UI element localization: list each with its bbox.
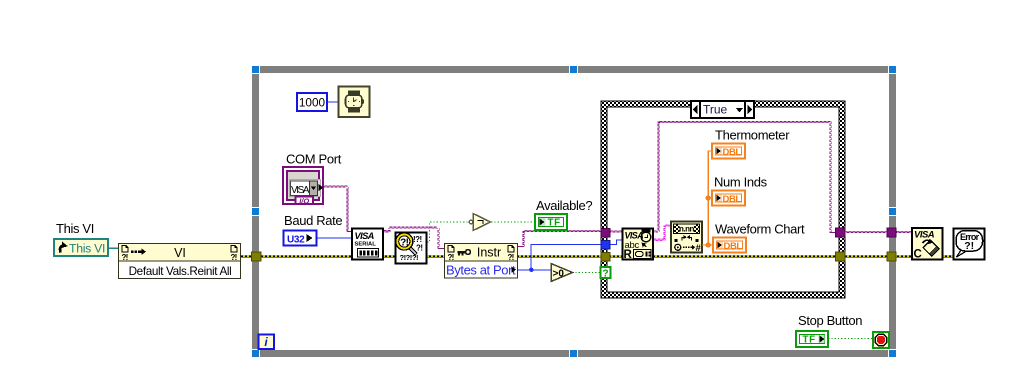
- wire: bytes-at-port integer branch: [517, 240, 623, 270]
- wire: baud rate U32 to VISA serial: [313, 237, 352, 239]
- wait (ms) function: [339, 87, 370, 118]
- svg-text:Instr: Instr: [477, 246, 501, 260]
- tunnel: error out of case (right): [836, 252, 846, 261]
- wire: VISA resource case tunnel to loop tunnel to VISA close: [843, 231, 914, 232]
- tunnel: VISA out of case (right): [836, 228, 846, 237]
- svg-text:?!: ?!: [448, 253, 454, 262]
- svg-text:DBL: DBL: [723, 194, 742, 205]
- wire: boolean clear-errors status to NOT gate: [427, 222, 469, 242]
- wire: VISA resource serial-out to property node: [382, 227, 445, 249]
- clear errors VI: [396, 233, 427, 264]
- svg-text:Waveform Chart: Waveform Chart: [715, 222, 805, 237]
- property node Instr : Bytes at Port: [445, 244, 518, 279]
- Available? boolean indicator: [535, 214, 567, 230]
- Waveform Chart DBL indicator: [713, 238, 746, 253]
- svg-text:#: #: [696, 243, 702, 254]
- wire: 1000 to wait ms: [327, 101, 339, 103]
- Thermometer DBL indicator: [712, 144, 745, 159]
- greater than 0 gate: [551, 264, 573, 282]
- svg-text:DBL: DBL: [724, 241, 743, 252]
- loop iteration terminal i: [259, 335, 275, 350]
- wire: VISA resource read-out around case top to right tunnel: [652, 121, 838, 232]
- svg-text:DBL: DBL: [723, 147, 742, 158]
- wire: read buffer string to scan-from-string: [652, 225, 671, 241]
- svg-text:Default Vals.Reinit All: Default Vals.Reinit All: [129, 265, 232, 278]
- while loop border: [252, 66, 896, 357]
- label 1000 constant: [297, 93, 327, 111]
- invoke node VI : Default Vals.Reinit All: [119, 244, 241, 279]
- svg-text:VISA: VISA: [291, 185, 310, 196]
- svg-text:?!: ?!: [400, 238, 409, 249]
- svg-text:?!: ?!: [416, 244, 423, 253]
- svg-text:C: C: [914, 249, 922, 261]
- svg-text:VISA: VISA: [355, 231, 375, 241]
- wire: boolean greater-than-zero to case selector: [572, 272, 601, 274]
- svg-text:SERIAL: SERIAL: [355, 242, 377, 248]
- svg-text:Bytes at Port: Bytes at Port: [446, 263, 516, 278]
- tunnel: VISA out of loop (right): [887, 228, 896, 237]
- svg-text:VISA: VISA: [625, 231, 644, 241]
- wire junction: orange at num inds: [706, 195, 711, 200]
- VISA configure serial port VI: [352, 229, 383, 260]
- svg-text:Num Inds: Num Inds: [714, 175, 768, 190]
- svg-text:Stop Button: Stop Button: [798, 313, 862, 328]
- tunnel: integer into case (left): [601, 241, 610, 250]
- NOT gate: [469, 214, 490, 231]
- svg-text:Baud Rate: Baud Rate: [284, 213, 342, 228]
- tunnel: VISA into case (left): [601, 229, 610, 238]
- simple error handler VI: [954, 229, 985, 260]
- svg-text:R: R: [624, 249, 633, 261]
- Num Inds DBL indicator: [712, 191, 745, 206]
- svg-text:VISA: VISA: [914, 230, 935, 241]
- U32 baud rate constant: [284, 231, 317, 246]
- wire junction: orange at waveform chart: [706, 242, 711, 247]
- svg-text:?!: ?!: [508, 253, 514, 262]
- tunnel: error out of loop (right): [887, 252, 896, 261]
- svg-text:U32: U32: [287, 235, 305, 246]
- svg-text:True: True: [703, 103, 728, 117]
- VISA read VI: [623, 229, 654, 262]
- wire: This VI refnum to invoke node: [107, 247, 119, 249]
- case structure border: [601, 101, 845, 298]
- svg-text:?!: ?!: [964, 240, 974, 252]
- svg-text:?!: ?!: [231, 253, 237, 262]
- svg-text:Available?: Available?: [536, 198, 592, 213]
- wire: boolean NOT output to Available? indicator: [491, 221, 536, 223]
- svg-text:Thermometer: Thermometer: [715, 128, 790, 143]
- svg-text:?: ?: [602, 269, 608, 280]
- Stop Button boolean control: [796, 331, 828, 347]
- svg-text:This VI: This VI: [69, 242, 105, 256]
- VISA close VI: [912, 228, 943, 261]
- svg-text:I/O: I/O: [299, 196, 309, 205]
- svg-text:>0: >0: [553, 269, 565, 280]
- wire: error cluster main line: [241, 255, 954, 258]
- svg-text:This VI: This VI: [56, 221, 94, 236]
- svg-text:TF: TF: [548, 218, 561, 229]
- scan from string (fract/exp string to number) VI: [671, 222, 702, 255]
- case selector label True: [691, 101, 754, 118]
- wire: VISA resource inside case to VISA read: [609, 231, 623, 232]
- svg-text:n.nn: n.nn: [679, 225, 694, 234]
- loop condition terminal (stop sign): [873, 332, 889, 348]
- svg-text:TF: TF: [803, 335, 816, 346]
- This VI refnum constant: [54, 239, 108, 256]
- wire: boolean stop button to loop condition terminal: [828, 338, 873, 340]
- tunnel: error into case (left): [601, 253, 610, 262]
- wire: VISA resource property node to case tunnel: [517, 230, 603, 246]
- svg-text:?!: ?!: [122, 253, 128, 262]
- wire: DBL orange branch: [702, 151, 714, 245]
- wire junction: bytes-at-port: [529, 268, 533, 272]
- COM Port VISA resource constant: [283, 167, 324, 205]
- while loop selection handles: [251, 65, 897, 358]
- case selector terminal ?: [601, 267, 611, 280]
- svg-text:1000: 1000: [299, 96, 326, 110]
- svg-text:COM Port: COM Port: [286, 152, 342, 167]
- svg-text:VI: VI: [174, 246, 186, 260]
- wire: COM port VISA resource to VISA serial: [323, 186, 352, 232]
- tunnel: error into loop (left): [252, 252, 262, 261]
